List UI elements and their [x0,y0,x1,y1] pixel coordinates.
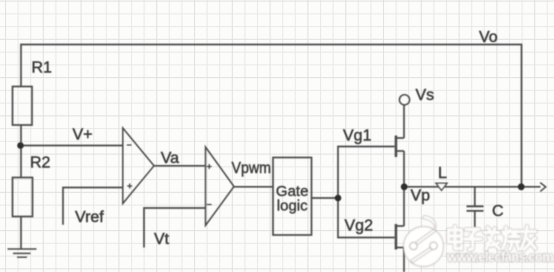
svg-text:Vt: Vt [154,231,170,248]
svg-text:C: C [492,203,504,220]
svg-text:R2: R2 [30,155,51,172]
svg-text:Vpwm: Vpwm [232,160,272,177]
svg-text:V+: V+ [73,127,93,144]
svg-text:Vref: Vref [75,209,104,226]
svg-text:Vs: Vs [416,87,435,104]
svg-text:Vg2: Vg2 [345,218,374,235]
svg-text:L: L [438,165,447,182]
svg-text:Vg1: Vg1 [343,128,372,145]
svg-text:Va: Va [161,150,179,167]
svg-text:logic: logic [277,198,308,215]
svg-text:www.elecfans.com: www.elecfans.com [446,250,554,265]
svg-text:Vo: Vo [479,29,498,46]
svg-text:R1: R1 [32,60,53,77]
svg-text:Vp: Vp [411,188,431,205]
